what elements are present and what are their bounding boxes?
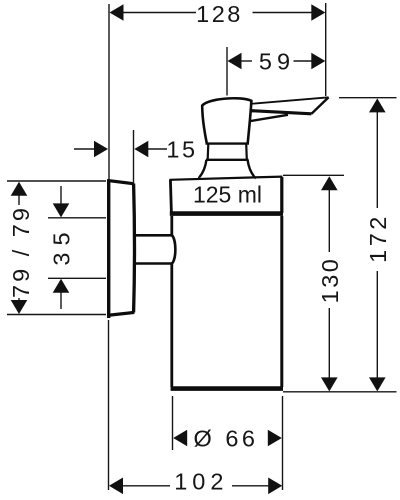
- wire dim 15 shaft right: [148, 148, 167, 150]
- wire extension line plate bottom y314.5: [7, 314, 106, 316]
- wire dim 172 shaft bottom: [376, 271, 378, 378]
- glass body right edge: [280, 216, 283, 387]
- arrow 102 right: [268, 478, 282, 495]
- wire extension line lever top y98: [339, 97, 397, 99]
- lever tip edge: [312, 97, 329, 114]
- svg-text:130: 130: [317, 257, 343, 304]
- svg-text:Ø 66: Ø 66: [194, 426, 259, 452]
- wire dim 128 shaft right: [253, 12, 313, 14]
- arrow 130 up: [321, 176, 338, 190]
- arrow 35 down: [53, 203, 70, 217]
- wire dim 79/79 shaft bottom: [18, 298, 20, 301]
- arrow diameter66 left: [173, 430, 187, 447]
- pump collar right side: [245, 144, 248, 160]
- wire extension line plate top y181: [7, 180, 106, 182]
- ring top edge: [170, 177, 283, 180]
- arrow diameter66 right: [268, 430, 282, 447]
- arrow 130 down: [321, 377, 338, 391]
- wire extension line pump top x227: [226, 47, 228, 96]
- ring separator thick line: [170, 211, 283, 216]
- glass body bottom edge: [171, 386, 283, 391]
- wire extension line 35 bottom y278.5: [48, 277, 106, 279]
- pump skirt right side: [248, 160, 255, 178]
- arrow 35 up: [53, 279, 70, 293]
- wire extension line bottom y392: [283, 391, 397, 393]
- wire dim 59 shaft left: [241, 60, 253, 62]
- wire dim 172 shaft top: [376, 112, 378, 208]
- arrow 79/79 down: [11, 300, 28, 314]
- pump collar bottom line: [206, 159, 249, 161]
- svg-text:15: 15: [166, 137, 197, 163]
- lever underside edge: [250, 115, 289, 121]
- pump body outline: [202, 98, 251, 143]
- wire dim 102 shaft right: [232, 485, 269, 487]
- wire dim 59 shaft right: [294, 60, 313, 62]
- wire extension line x134.8: [133, 130, 135, 182]
- holder arm bottom edge: [135, 262, 172, 265]
- wire dim 128 shaft left: [122, 12, 196, 14]
- arrow 172 up: [369, 98, 386, 112]
- ring right edge: [280, 177, 283, 213]
- pump collar left side: [207, 144, 210, 160]
- wall plate left edge: [107, 180, 110, 319]
- pump body bottom line: [206, 142, 250, 144]
- svg-text:172: 172: [365, 213, 391, 263]
- ring left edge: [170, 180, 171, 214]
- arrow 59 left: [228, 53, 242, 70]
- lever bottom blade edge: [250, 111, 312, 114]
- arrow 128 right: [311, 4, 325, 21]
- wire extension line left x109: [108, 4, 110, 180]
- arrow 172 down: [369, 377, 386, 391]
- wire extension line glass left x172.5: [172, 396, 174, 450]
- arrow 15 right pointing left: [134, 141, 148, 158]
- glass body left edge upper: [170, 216, 173, 236]
- wire extension line ring top y175.3: [283, 174, 344, 176]
- arrow 79/79 up: [11, 182, 28, 196]
- arrow 102 left: [109, 478, 123, 495]
- wall plate bottom edge: [107, 312, 134, 315]
- wire extension line right x326: [325, 3, 327, 96]
- wire dim 35 shaft top: [60, 186, 62, 204]
- wall plate right edge: [132, 184, 136, 313]
- lever top edge: [250, 97, 329, 104]
- svg-text:128: 128: [196, 1, 243, 27]
- pump skirt left side: [199, 160, 206, 178]
- arrow 15 left pointing right: [94, 141, 108, 158]
- svg-text:79 / 79: 79 / 79: [8, 205, 34, 298]
- holder arm top edge: [135, 234, 172, 237]
- wire dim 15 shaft left: [74, 148, 96, 150]
- svg-text:35: 35: [48, 225, 74, 265]
- wall plate top edge: [107, 180, 134, 183]
- svg-text:59: 59: [259, 49, 295, 75]
- svg-text:125 ml: 125 ml: [193, 182, 262, 208]
- wire dim 35 shaft bottom: [60, 293, 62, 310]
- arrow 59 right: [311, 53, 325, 70]
- wire extension line 35 top y218: [48, 217, 106, 219]
- wire dim 79/79 shaft top: [18, 195, 20, 205]
- arrow 128 left: [110, 4, 124, 21]
- wire extension line plate left bottom x108.5: [108, 320, 110, 490]
- wire dim 130 shaft top: [328, 190, 330, 252]
- svg-text:102: 102: [174, 469, 228, 495]
- wire dim 102 shaft left: [123, 485, 170, 487]
- wire extension line glass right x282.5: [282, 396, 284, 490]
- wire dim 130 shaft bottom: [328, 308, 330, 378]
- glass body left edge lower: [170, 263, 173, 387]
- holder arm cap arc: [172, 235, 176, 264]
